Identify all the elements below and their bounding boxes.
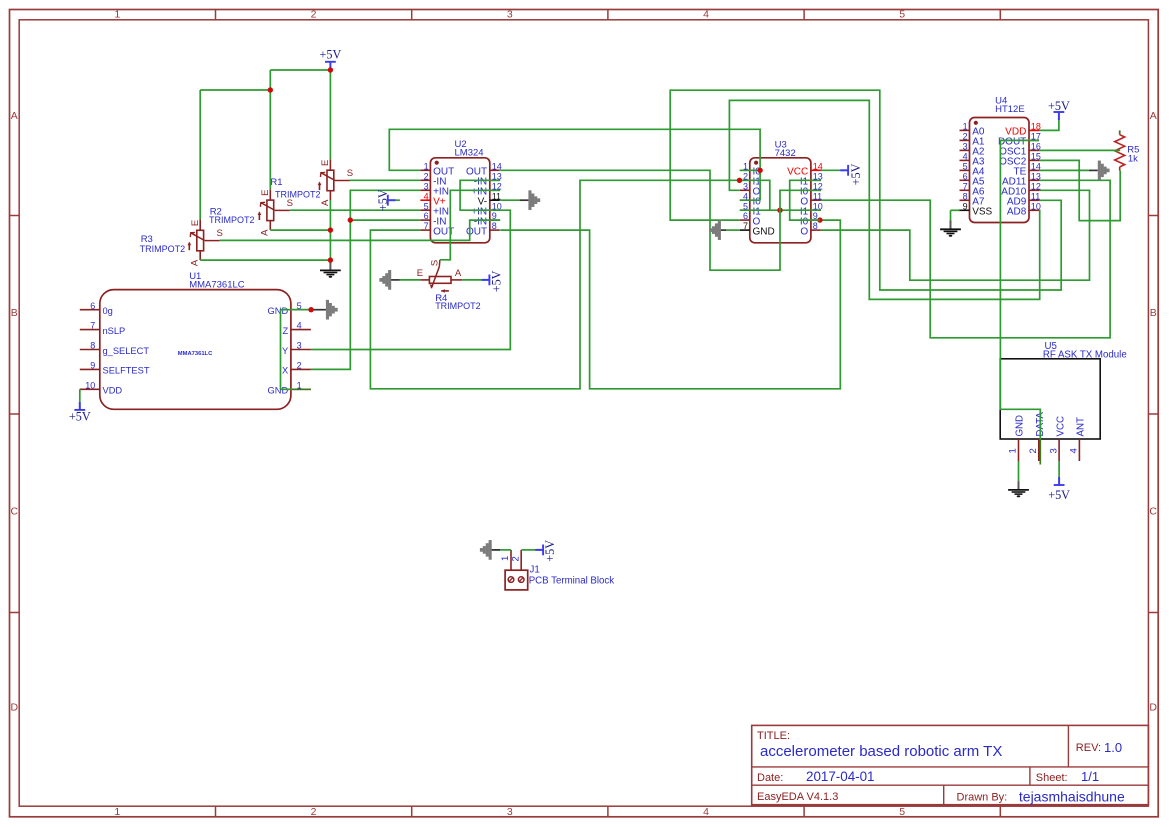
- svg-text:1: 1: [114, 8, 120, 20]
- svg-text:2: 2: [1028, 448, 1039, 453]
- svg-text:A: A: [455, 268, 462, 279]
- svg-text:4: 4: [963, 152, 968, 162]
- svg-text:+5V: +5V: [490, 270, 504, 292]
- svg-text:0g: 0g: [103, 306, 113, 316]
- svg-text:J1: J1: [530, 565, 540, 576]
- svg-text:TRIMPOT2: TRIMPOT2: [435, 301, 481, 311]
- svg-text:5: 5: [963, 162, 968, 172]
- svg-text:3: 3: [424, 181, 429, 191]
- svg-text:VSS: VSS: [972, 207, 992, 218]
- svg-text:3: 3: [743, 181, 748, 191]
- svg-text:5: 5: [899, 806, 905, 818]
- svg-text:11: 11: [492, 191, 501, 201]
- svg-text:VCC: VCC: [1055, 416, 1066, 436]
- svg-text:5: 5: [899, 8, 905, 20]
- svg-text:TRIMPOT2: TRIMPOT2: [140, 244, 186, 254]
- svg-text:REV:: REV:: [1076, 742, 1101, 754]
- svg-text:2: 2: [424, 171, 429, 181]
- svg-text:7432: 7432: [775, 148, 796, 159]
- svg-text:3: 3: [297, 341, 302, 351]
- svg-text:TRIMPOT2: TRIMPOT2: [275, 190, 321, 200]
- svg-text:O: O: [800, 226, 808, 237]
- svg-text:4: 4: [297, 321, 302, 331]
- svg-text:+5V: +5V: [1048, 99, 1070, 113]
- svg-text:Date:: Date:: [757, 772, 783, 784]
- svg-text:S: S: [347, 168, 353, 179]
- svg-text:E: E: [417, 268, 423, 279]
- svg-text:8: 8: [90, 341, 95, 351]
- svg-text:2: 2: [510, 556, 521, 561]
- svg-text:1/1: 1/1: [1081, 769, 1099, 784]
- svg-text:E: E: [260, 190, 271, 196]
- svg-text:Z: Z: [283, 326, 289, 336]
- svg-text:8: 8: [963, 191, 968, 201]
- svg-text:AD8: AD8: [1007, 207, 1027, 218]
- svg-text:RF ASK TX Module: RF ASK TX Module: [1043, 350, 1127, 361]
- svg-text:Y: Y: [282, 346, 288, 356]
- svg-text:2: 2: [311, 8, 317, 20]
- svg-text:nSLP: nSLP: [103, 326, 126, 336]
- svg-text:GND: GND: [268, 306, 289, 316]
- svg-text:tejasmhaisdhune: tejasmhaisdhune: [1019, 789, 1125, 805]
- svg-text:E: E: [320, 160, 331, 166]
- svg-text:+5V: +5V: [543, 540, 557, 562]
- svg-text:1: 1: [424, 161, 429, 171]
- svg-text:3: 3: [507, 8, 513, 20]
- svg-text:7: 7: [963, 181, 968, 191]
- svg-text:6: 6: [963, 171, 968, 181]
- svg-text:S: S: [287, 198, 293, 209]
- svg-text:1.0: 1.0: [1104, 740, 1122, 755]
- svg-text:5: 5: [424, 201, 429, 211]
- svg-text:6: 6: [743, 211, 748, 221]
- svg-text:MMA7361LC: MMA7361LC: [189, 279, 245, 290]
- svg-text:2: 2: [297, 361, 302, 371]
- svg-text:2017-04-01: 2017-04-01: [806, 769, 875, 784]
- svg-text:VDD: VDD: [103, 386, 123, 396]
- svg-text:D: D: [11, 702, 19, 714]
- svg-text:MMA7361LC: MMA7361LC: [178, 351, 213, 357]
- svg-text:accelerometer based robotic ar: accelerometer based robotic arm TX: [760, 743, 1002, 760]
- svg-text:X: X: [282, 366, 288, 376]
- svg-text:11: 11: [813, 191, 822, 201]
- svg-text:TITLE:: TITLE:: [757, 730, 790, 742]
- svg-text:GND: GND: [1015, 415, 1026, 437]
- svg-text:LM324: LM324: [455, 148, 484, 159]
- svg-text:E: E: [190, 220, 201, 226]
- svg-text:1k: 1k: [1128, 154, 1138, 165]
- svg-text:4: 4: [703, 8, 709, 20]
- svg-text:1: 1: [1008, 448, 1019, 453]
- svg-text:4: 4: [1069, 448, 1080, 453]
- svg-text:6: 6: [90, 301, 95, 311]
- svg-text:7: 7: [424, 221, 429, 231]
- svg-text:A: A: [320, 199, 331, 206]
- svg-text:8: 8: [813, 221, 818, 231]
- svg-text:ANT: ANT: [1076, 417, 1087, 436]
- svg-text:C: C: [11, 506, 19, 518]
- svg-text:D: D: [1149, 702, 1157, 714]
- svg-text:1: 1: [114, 806, 120, 818]
- svg-text:+5V: +5V: [849, 163, 863, 185]
- svg-text:10: 10: [85, 380, 95, 390]
- svg-text:B: B: [1150, 307, 1157, 319]
- svg-text:PCB Terminal Block: PCB Terminal Block: [529, 576, 615, 587]
- svg-text:EasyEDA V4.1.3: EasyEDA V4.1.3: [757, 791, 838, 803]
- svg-text:3: 3: [507, 806, 513, 818]
- svg-text:3: 3: [963, 142, 968, 152]
- svg-text:8: 8: [492, 221, 497, 231]
- svg-text:B: B: [11, 307, 18, 319]
- svg-text:g_SELECT: g_SELECT: [103, 346, 150, 356]
- svg-text:GND: GND: [268, 386, 289, 396]
- svg-text:TRIMPOT2: TRIMPOT2: [209, 215, 255, 225]
- svg-text:7: 7: [743, 221, 748, 231]
- svg-text:4: 4: [424, 191, 429, 201]
- svg-text:9: 9: [90, 361, 95, 371]
- svg-text:C: C: [1149, 506, 1157, 518]
- svg-text:SELFTEST: SELFTEST: [103, 366, 150, 376]
- svg-text:+5V: +5V: [1048, 488, 1070, 502]
- svg-text:2: 2: [311, 806, 317, 818]
- svg-text:2: 2: [963, 132, 968, 142]
- svg-text:9: 9: [963, 201, 968, 211]
- svg-text:1: 1: [963, 122, 968, 132]
- svg-text:11: 11: [1031, 191, 1040, 201]
- svg-text:A: A: [260, 229, 271, 236]
- svg-text:A: A: [1150, 110, 1157, 122]
- svg-text:GND: GND: [753, 226, 775, 237]
- svg-text:S: S: [429, 260, 440, 266]
- svg-text:R1: R1: [270, 177, 282, 188]
- svg-text:3: 3: [1048, 448, 1059, 453]
- svg-text:S: S: [217, 228, 223, 239]
- svg-text:Drawn By:: Drawn By:: [957, 792, 1008, 804]
- svg-text:HT12E: HT12E: [995, 104, 1025, 115]
- svg-text:7: 7: [90, 321, 95, 331]
- svg-text:4: 4: [703, 806, 709, 818]
- svg-text:A: A: [190, 259, 201, 266]
- svg-text:6: 6: [424, 211, 429, 221]
- svg-text:Sheet:: Sheet:: [1036, 772, 1068, 784]
- svg-text:+5V: +5V: [376, 189, 390, 211]
- svg-text:A: A: [11, 110, 18, 122]
- svg-text:+5V: +5V: [69, 410, 91, 424]
- svg-text:+5V: +5V: [320, 48, 342, 62]
